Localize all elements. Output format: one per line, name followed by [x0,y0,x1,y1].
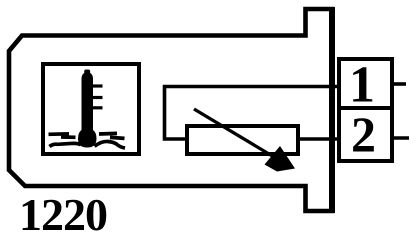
pin 1 stub [392,82,406,86]
pin 1 box [339,59,392,108]
liquid wave upper-left dash b [61,135,76,139]
thermistor arrow shaft [194,109,284,163]
svg-text:1: 1 [349,57,375,114]
thermometer stem and bulb [78,73,97,148]
liquid wave upper-left dash a [49,132,70,136]
liquid wave lower-right [95,141,126,148]
connector tab right edge (thicker) [329,7,335,213]
wire R to pin2 [298,137,338,141]
thermometer tick 3 [92,106,103,109]
sensor body outline with connector tab [9,9,332,211]
thermistor R body [187,126,298,154]
thermometer tick 2 [92,96,103,99]
thermistor arrowhead [265,146,296,172]
svg-text:2: 2 [351,106,376,162]
thermometer tip nub [84,70,90,75]
thermometer tick 1 [92,84,103,87]
pin 2 stub [392,136,409,140]
pin 2 box [339,108,392,161]
liquid wave lower-left [50,143,82,146]
liquid wave upper-right dash b [110,137,125,138]
liquid wave upper-right dash a [99,132,117,136]
svg-text:1220: 1220 [19,189,107,236]
icon box [43,64,139,154]
wire pin1 loop [165,87,338,140]
